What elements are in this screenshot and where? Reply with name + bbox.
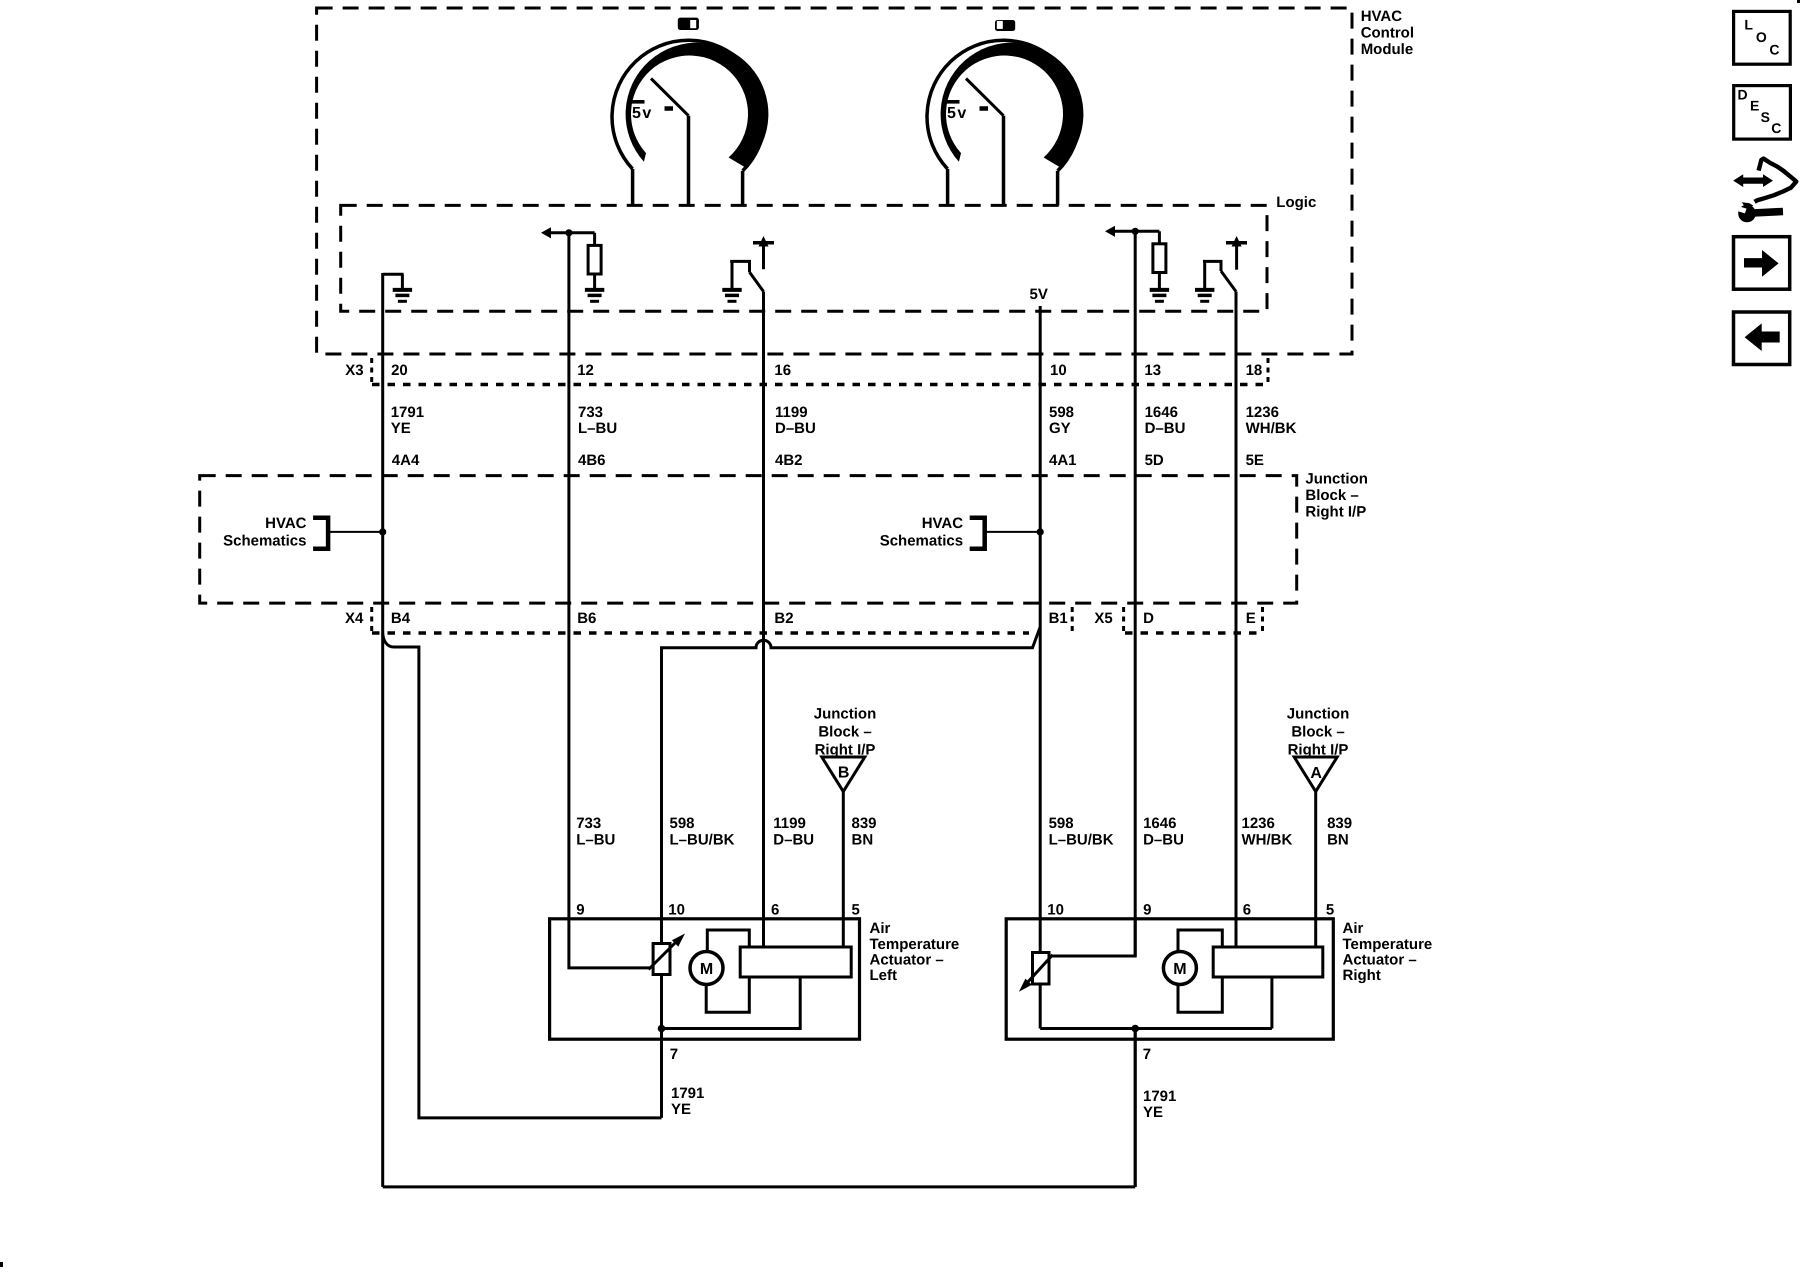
node dot left actuator pin7 [658, 1025, 666, 1033]
wire 839 BN left (pin5) [842, 792, 845, 948]
potentiometer dial left outer arc [612, 40, 765, 171]
svg-text:B2: B2 [774, 610, 793, 627]
svg-text:5E: 5E [1246, 452, 1264, 469]
svg-text:Control: Control [1361, 25, 1414, 42]
svg-text:X5: X5 [1094, 610, 1112, 627]
svg-text:598: 598 [670, 815, 695, 832]
svg-text:X3: X3 [345, 362, 363, 379]
toolbar icon LOC box [1734, 11, 1791, 64]
connector X4 separator [370, 607, 373, 634]
toolbar icon DESC box [1734, 86, 1791, 140]
potentiometer dial right indicator [995, 20, 1015, 31]
svg-text:D: D [1738, 87, 1748, 103]
svg-text:Air: Air [870, 920, 891, 937]
svg-text:S: S [1761, 109, 1770, 125]
svg-text:10: 10 [668, 902, 685, 919]
svg-text:7: 7 [1143, 1046, 1151, 1063]
toolbar icon schematic navigation (wrench) [1738, 205, 1756, 223]
svg-text:L–BU/BK: L–BU/BK [1049, 832, 1114, 849]
svg-text:HVAC: HVAC [922, 515, 964, 532]
svg-text:1646: 1646 [1145, 404, 1178, 421]
wire 1646 D-BU (pin13/D) vertical [1134, 231, 1137, 956]
motor M left leads loop [706, 930, 749, 1012]
resistor R2 (pin13 pullup) [1158, 231, 1161, 244]
svg-text:598: 598 [1049, 404, 1074, 421]
svg-text:GY: GY [1049, 420, 1071, 437]
svg-text:Actuator –: Actuator – [1343, 952, 1417, 969]
speck bottom left [0, 1262, 3, 1267]
potentiometer dial left legs [631, 169, 635, 205]
svg-text:L–BU: L–BU [578, 420, 617, 437]
left actuator pin7 wire [660, 1029, 663, 1118]
wire 1791 YE bottom routing [383, 1029, 1135, 1187]
node dot tap 1 [379, 528, 386, 535]
svg-text:1199: 1199 [773, 815, 806, 832]
svg-text:5: 5 [1326, 902, 1334, 919]
svg-text:WH/BK: WH/BK [1246, 420, 1297, 437]
svg-text:D: D [1143, 610, 1154, 627]
node dot pin13 [1132, 228, 1139, 235]
left actuator pin9 internal lead [569, 919, 650, 968]
svg-text:6: 6 [771, 902, 779, 919]
potentiometer R4 wiper arrow [1027, 955, 1053, 984]
svg-text:4B2: 4B2 [775, 452, 803, 469]
potentiometer R4 (right actuator) [1033, 953, 1050, 985]
svg-text:Junction: Junction [814, 706, 877, 723]
svg-text:13: 13 [1144, 362, 1161, 379]
toolbar icon schematic navigation (swoosh) [1755, 159, 1797, 202]
svg-text:A: A [1310, 765, 1322, 782]
node dot tap 2 [1037, 528, 1044, 535]
potentiometer dial left crescent [626, 43, 769, 167]
svg-text:WH/BK: WH/BK [1242, 832, 1293, 849]
svg-text:4B6: 4B6 [578, 452, 606, 469]
svg-text:Logic: Logic [1276, 194, 1316, 211]
HVAC Schematics tap 1 wire [330, 531, 383, 533]
svg-text:Schematics: Schematics [223, 533, 306, 550]
svg-text:D–BU: D–BU [775, 420, 816, 437]
svg-text:1236: 1236 [1246, 404, 1279, 421]
svg-text:D–BU: D–BU [1143, 832, 1184, 849]
svg-text:18: 18 [1246, 362, 1263, 379]
svg-text:HVAC: HVAC [265, 515, 307, 532]
ground G3 [722, 288, 741, 292]
potentiometer dial right outer arc [927, 40, 1080, 171]
arrow into logic (pin13) [1105, 226, 1115, 237]
svg-text:C: C [1769, 41, 1779, 57]
Air Temperature Actuator Left box M1 [550, 919, 860, 1039]
svg-text:C: C [1771, 120, 1781, 136]
svg-text:BN: BN [1327, 832, 1349, 849]
svg-text:Block –: Block – [818, 724, 871, 741]
HVAC Control Module box U1 [317, 8, 1352, 354]
svg-text:YE: YE [1143, 1104, 1163, 1121]
svg-text:Block –: Block – [1305, 487, 1358, 504]
svg-text:Junction: Junction [1305, 471, 1368, 488]
arrow into logic (pin12) [541, 227, 551, 238]
svg-text:X4: X4 [345, 610, 364, 627]
svg-text:Right I/P: Right I/P [1305, 504, 1366, 521]
connector X3 separator right [1267, 358, 1270, 385]
connector X4 dotted line [372, 631, 1029, 635]
svg-text:5v: 5v [947, 105, 968, 122]
ground G4 [1150, 288, 1169, 292]
svg-text:12: 12 [577, 362, 594, 379]
connector X4 separator right [1071, 607, 1074, 634]
HVAC Schematics tap 1 bracket [313, 518, 328, 549]
switch SW1 (pin16) [730, 261, 749, 272]
connector X3 band bottom dotted line [372, 383, 1268, 387]
svg-text:4A4: 4A4 [392, 452, 420, 469]
ground G5 [1195, 288, 1214, 292]
right actuator pin7 wire [1134, 1029, 1137, 1187]
svg-text:5V: 5V [1030, 286, 1048, 303]
feedback element rect right actuator [1213, 947, 1323, 977]
svg-text:L–BU: L–BU [576, 832, 615, 849]
svg-text:839: 839 [852, 815, 877, 832]
connector X5 dotted line [1125, 631, 1263, 635]
ground G1 [393, 288, 412, 292]
svg-text:B: B [838, 765, 850, 782]
wire 839 BN right (pin5) [1314, 792, 1317, 948]
toolbar icon back (left arrow) box [1734, 312, 1790, 365]
feedback element rect left actuator [740, 947, 851, 977]
toolbar icon schematic navigation (double arrow) [1733, 174, 1773, 187]
potentiometer dial right wiper [966, 79, 1004, 116]
svg-text:10: 10 [1050, 362, 1067, 379]
svg-text:Air: Air [1343, 920, 1364, 937]
svg-text:1199: 1199 [775, 404, 808, 421]
potentiometer R3 (left actuator) [653, 944, 670, 975]
Air Temperature Actuator Right box M2 [1006, 919, 1333, 1039]
svg-text:M: M [1173, 961, 1186, 978]
svg-text:Module: Module [1361, 41, 1414, 58]
svg-text:5v: 5v [632, 105, 653, 122]
potentiometer dial left wiper [651, 79, 689, 116]
svg-text:839: 839 [1327, 815, 1352, 832]
svg-text:O: O [1756, 29, 1767, 45]
svg-text:7: 7 [670, 1046, 678, 1063]
svg-text:1791: 1791 [671, 1085, 704, 1102]
up arrow (pin18 sense) [1232, 236, 1242, 247]
wire 598 GY (pin10/B1 5V) vertical [1039, 306, 1042, 1029]
potentiometer dial right crescent [941, 43, 1084, 167]
HVAC Schematics tap 2 bracket [970, 518, 985, 549]
svg-text:Junction: Junction [1287, 706, 1350, 723]
svg-text:Block –: Block – [1291, 724, 1344, 741]
wire 1791 YE (pin20/B4) vertical [381, 273, 384, 1187]
svg-text:9: 9 [576, 902, 584, 919]
svg-text:E: E [1750, 98, 1759, 114]
switch SW2 (pin18) [1203, 261, 1221, 271]
svg-text:D–BU: D–BU [1145, 420, 1186, 437]
svg-text:5D: 5D [1145, 452, 1164, 469]
node dot pin12 [565, 229, 572, 236]
svg-text:B1: B1 [1049, 610, 1068, 627]
svg-text:1791: 1791 [391, 404, 424, 421]
svg-text:Right: Right [1343, 967, 1381, 984]
potentiometer R3 wiper arrow [649, 941, 678, 970]
svg-text:B4: B4 [391, 610, 411, 627]
svg-text:Actuator –: Actuator – [870, 952, 944, 969]
ground G2 [585, 288, 604, 292]
svg-text:HVAC: HVAC [1361, 8, 1403, 25]
Logic box [341, 205, 1267, 311]
connector X5 separator left [1122, 607, 1125, 634]
speck top right [1797, 0, 1800, 3]
node dot right actuator pin7 [1131, 1025, 1139, 1033]
svg-text:M: M [700, 961, 713, 978]
wire 1236 WH/BK (pin18/E) vertical [1235, 292, 1238, 948]
svg-text:BN: BN [852, 832, 874, 849]
svg-text:L–BU/BK: L–BU/BK [670, 832, 735, 849]
wire pin20 stub [383, 274, 404, 288]
potentiometer dial right legs [946, 169, 950, 205]
wire B1 branch to left actuator pin10 (hop over B2) [662, 627, 1041, 945]
svg-text:10: 10 [1047, 902, 1064, 919]
svg-text:598: 598 [1049, 815, 1074, 832]
wire B4 jog branch to left actuator pin7 [383, 633, 662, 1118]
svg-text:B6: B6 [577, 610, 596, 627]
svg-text:5: 5 [852, 902, 860, 919]
svg-text:1646: 1646 [1143, 815, 1176, 832]
svg-text:Schematics: Schematics [880, 533, 963, 550]
svg-text:4A1: 4A1 [1049, 452, 1077, 469]
svg-text:Left: Left [870, 967, 898, 984]
motor M right leads loop [1178, 930, 1222, 1012]
wire 733 L-BU (pin12/B6) vertical [567, 233, 570, 919]
svg-text:733: 733 [578, 404, 603, 421]
svg-text:YE: YE [671, 1101, 691, 1118]
svg-text:Temperature: Temperature [1343, 936, 1433, 953]
svg-text:9: 9 [1143, 902, 1151, 919]
motor M right actuator [1163, 952, 1196, 985]
right actuator pin9 internal lead [1052, 919, 1135, 956]
svg-text:733: 733 [576, 815, 601, 832]
up arrow (pin16 sense) [759, 236, 769, 247]
left actuator internal bottom lead [662, 973, 801, 1028]
svg-text:20: 20 [391, 362, 408, 379]
svg-text:1236: 1236 [1242, 815, 1275, 832]
potentiometer dial left indicator [678, 18, 699, 30]
svg-text:L: L [1744, 17, 1753, 33]
svg-text:E: E [1246, 610, 1256, 627]
connector X5 separator right [1261, 607, 1264, 634]
toolbar icon next (right arrow) box [1734, 237, 1790, 290]
connector X3 separator left [370, 358, 373, 385]
svg-text:YE: YE [391, 420, 411, 437]
wire 1199 D-BU (pin16/B2) vertical [762, 292, 765, 948]
svg-text:6: 6 [1243, 902, 1251, 919]
svg-text:1791: 1791 [1143, 1088, 1176, 1105]
motor M left actuator [690, 952, 723, 985]
resistor R1 (pin12 pullup) [593, 233, 596, 246]
svg-text:16: 16 [774, 362, 791, 379]
svg-text:D–BU: D–BU [773, 832, 814, 849]
Junction Block - Right I/P box [200, 476, 1297, 603]
right actuator internal bottom lead [1040, 977, 1272, 1029]
HVAC Schematics tap 2 wire [986, 531, 1040, 533]
svg-text:Temperature: Temperature [870, 936, 960, 953]
